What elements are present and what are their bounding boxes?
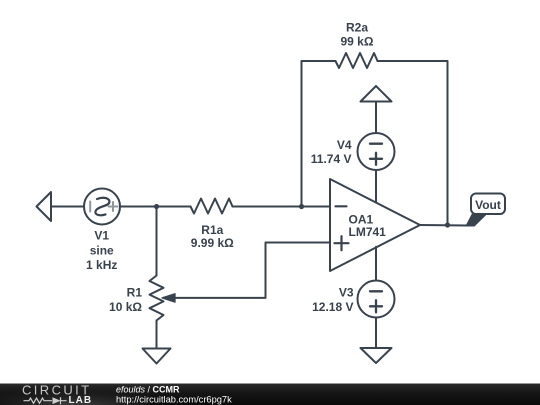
svg-text:V4: V4: [337, 138, 352, 152]
potentiometer R1 body: [150, 276, 164, 321]
svg-text:V3: V3: [339, 285, 354, 299]
svg-text:V1: V1: [94, 229, 109, 243]
op-amp inverting input symbol: [336, 205, 347, 207]
svg-text:http://circuitlab.com/cr6pg7k: http://circuitlab.com/cr6pg7k: [116, 395, 232, 405]
wire wiper to op-amp non-inverting input: [174, 243, 331, 298]
svg-text:Vout: Vout: [475, 198, 501, 212]
wire V4 to VCC arrow: [375, 102, 377, 134]
wire R2a to output node: [378, 61, 448, 225]
svg-text:LM741: LM741: [349, 225, 387, 239]
power supply arrow VCC: [361, 86, 392, 102]
logo resistor-diode symbol: [24, 397, 67, 404]
svg-text:9.99 kΩ: 9.99 kΩ: [191, 236, 234, 250]
wire GND1 to V1: [52, 206, 85, 208]
ground GND1 (left of V1, rotated): [37, 192, 52, 221]
node A junction: [154, 204, 159, 209]
node B junction: [299, 204, 304, 209]
voltage source V4: [358, 133, 395, 170]
node C junction (output): [445, 222, 450, 227]
potentiometer wiper arrow: [162, 294, 175, 302]
ground GND2 (below R1): [143, 349, 171, 364]
svg-text:sine: sine: [90, 243, 114, 257]
svg-text:LAB: LAB: [69, 395, 93, 405]
op-amp OA1 body: [330, 179, 420, 271]
wire op-amp output to Vout: [420, 224, 468, 227]
wire V3 to GND3: [375, 318, 377, 349]
svg-text:99 kΩ: 99 kΩ: [341, 34, 374, 48]
op-amp non-inverting input symbol: [335, 236, 349, 250]
wire R1a to op-amp inverting input: [233, 206, 331, 208]
footer bar: [0, 384, 540, 405]
svg-text:efoulds / CCMR: efoulds / CCMR: [116, 385, 180, 395]
footer logo glow: [0, 384, 150, 405]
svg-text:10 kΩ: 10 kΩ: [109, 300, 142, 314]
resistor R1a: [191, 199, 233, 214]
svg-text:11.74 V: 11.74 V: [311, 152, 352, 166]
wire node A down to potentiometer R1: [156, 207, 158, 276]
voltage source V1 (sine): [84, 189, 120, 225]
svg-text:R1: R1: [127, 286, 143, 300]
ground GND3 (below V3): [361, 348, 392, 363]
svg-text:R1a: R1a: [201, 223, 223, 237]
Vout flag tail: [465, 214, 487, 227]
svg-text:12.18 V: 12.18 V: [312, 300, 353, 314]
svg-text:R2a: R2a: [346, 21, 368, 35]
resistor R2a: [336, 53, 378, 68]
wire feedback up from node B: [302, 61, 336, 207]
op-amp negative supply pin wire: [375, 247, 377, 281]
wire V1 to R1a: [120, 206, 191, 208]
wire R1 to GND2: [156, 321, 158, 349]
svg-text:1 kHz: 1 kHz: [86, 258, 117, 272]
op-amp positive supply pin wire: [375, 170, 377, 202]
Vout flag box: [471, 194, 505, 215]
voltage source V3: [358, 281, 395, 318]
